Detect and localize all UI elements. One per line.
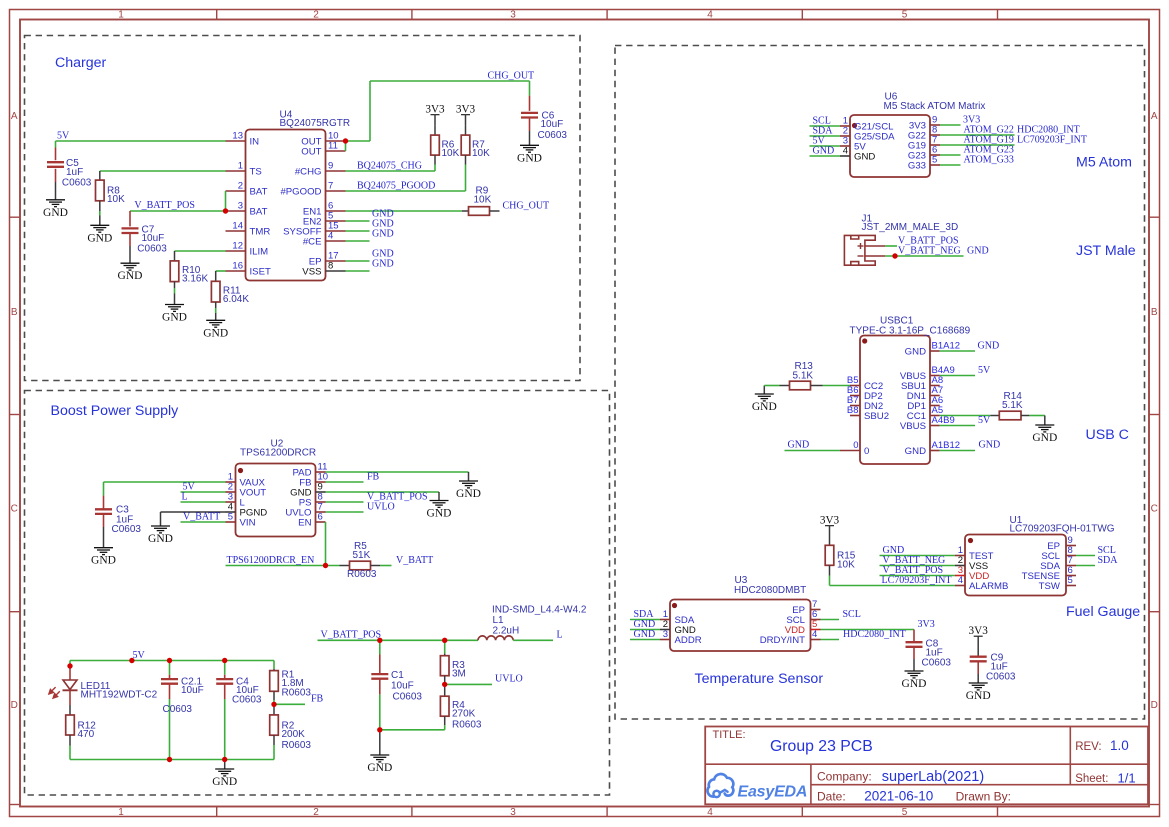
power port 3V3 above R7 — [456, 104, 476, 126]
ground below R10 — [162, 294, 187, 324]
resistor R14 5.1K — [990, 391, 1029, 420]
svg-text:GND: GND — [902, 678, 927, 690]
svg-text:R0603: R0603 — [282, 740, 312, 751]
ground below U2.GND wire — [427, 492, 452, 520]
svg-text:C: C — [1151, 504, 1158, 515]
wire U4.#PGOOD net BQ24075_PGOOD — [346, 190, 466, 192]
svg-text:superLab(2021): superLab(2021) — [882, 769, 984, 785]
wire UVLO stub — [445, 683, 492, 685]
capacitor C5 1uF — [47, 141, 92, 189]
svg-text:A: A — [1151, 111, 1158, 122]
svg-text:ILIM: ILIM — [250, 247, 269, 258]
wire U2.UVLO stub — [326, 511, 364, 513]
svg-text:SCL: SCL — [843, 609, 861, 620]
svg-text:#CE: #CE — [303, 237, 322, 248]
ground below C3 — [91, 527, 116, 567]
svg-text:IND-SMD_L4.4-W4.2: IND-SMD_L4.4-W4.2 — [492, 605, 587, 616]
wire SDA to U3.1 — [630, 619, 660, 621]
svg-text:3: 3 — [510, 10, 516, 21]
wire U6.6 ATOM_G23 — [940, 154, 961, 156]
svg-text:GND: GND — [43, 207, 68, 219]
svg-text:1: 1 — [238, 161, 243, 172]
svg-text:R0603: R0603 — [347, 569, 377, 580]
wire V_BATT_POS to U4.BAT — [130, 210, 226, 212]
svg-text:4: 4 — [328, 231, 333, 242]
wire U6.4 GND — [810, 155, 841, 157]
svg-text:3: 3 — [510, 807, 516, 818]
wire J1.- V_BATT_NEG/GND — [885, 255, 964, 257]
svg-text:C0603: C0603 — [986, 672, 1016, 683]
svg-text:#PGOOD: #PGOOD — [280, 187, 321, 198]
resistor R13 5.1K — [764, 361, 822, 390]
svg-text:GND: GND — [118, 270, 143, 282]
svg-text:12: 12 — [232, 241, 243, 252]
capacitor C6 10uF — [521, 96, 567, 141]
svg-text:LC709203F_INT: LC709203F_INT — [882, 575, 952, 586]
svg-text:1: 1 — [118, 807, 124, 818]
section box Charger — [25, 36, 581, 381]
svg-text:V_BATT_POS: V_BATT_POS — [134, 200, 195, 211]
wire U3.DRDY/INT — [821, 639, 840, 641]
svg-text:Temperature Sensor: Temperature Sensor — [695, 671, 824, 687]
svg-text:GND: GND — [813, 146, 835, 157]
ground below C8 — [902, 659, 927, 690]
svg-text:5: 5 — [228, 512, 233, 523]
wire U4.SYSOFF gnd stub — [346, 230, 370, 232]
svg-text:1/1: 1/1 — [1118, 771, 1136, 786]
svg-text:TPS61200DRCR_EN: TPS61200DRCR_EN — [227, 555, 315, 566]
wire U2.PS stub — [326, 501, 364, 503]
svg-text:3.16K: 3.16K — [182, 274, 208, 285]
ground below C7 — [118, 246, 143, 282]
wire GND to U3.2 — [630, 629, 660, 631]
LED LED11 MHT192WDT-C2 — [49, 666, 158, 705]
wire U4.VSS gnd stub — [346, 270, 370, 272]
resistor R2 200K — [270, 704, 312, 759]
svg-text:5V: 5V — [978, 365, 991, 376]
svg-text:IN: IN — [250, 137, 260, 148]
wire U3.SCL — [821, 619, 840, 621]
svg-text:GND: GND — [967, 246, 989, 257]
svg-text:6.04K: 6.04K — [223, 294, 249, 305]
svg-text:L1: L1 — [493, 615, 505, 626]
title block — [705, 727, 1148, 805]
wire U6.2 SDA — [810, 135, 841, 137]
ground right of R14 — [1032, 416, 1057, 445]
wire U6.8 ATOM_G22 — [940, 134, 1015, 136]
svg-text:GND: GND — [148, 533, 173, 545]
svg-text:5: 5 — [932, 155, 937, 166]
svg-text:5: 5 — [1068, 575, 1073, 586]
svg-text:2.2uH: 2.2uH — [493, 626, 520, 637]
svg-text:GND: GND — [203, 327, 228, 339]
svg-text:VSS: VSS — [302, 267, 321, 278]
svg-text:HDC2080DMBT: HDC2080DMBT — [734, 585, 806, 596]
svg-text:TS: TS — [250, 167, 262, 178]
svg-text:R0603: R0603 — [452, 720, 482, 731]
svg-text:470: 470 — [78, 729, 95, 740]
wire USBC1.B4A9 5V — [940, 375, 975, 377]
wire U4.#CE gnd stub — [346, 240, 370, 242]
EasyEDA logo — [708, 774, 808, 801]
svg-text:A4B9: A4B9 — [932, 415, 955, 426]
svg-text:10uF: 10uF — [142, 233, 165, 244]
svg-text:2: 2 — [238, 181, 243, 192]
svg-text:USB C: USB C — [1086, 427, 1129, 443]
resistor R11 6.04K — [211, 271, 249, 313]
ground below C6 — [517, 131, 542, 164]
wire U4.ILIM to R10 — [175, 250, 226, 252]
svg-text:SDA: SDA — [1098, 555, 1119, 566]
svg-text:4: 4 — [707, 10, 713, 21]
svg-text:7: 7 — [328, 181, 333, 192]
svg-text:GND: GND — [87, 232, 112, 244]
svg-text:10K: 10K — [472, 148, 490, 159]
svg-text:3V3: 3V3 — [918, 619, 935, 630]
svg-text:UVLO: UVLO — [367, 502, 395, 513]
svg-text:Drawn By:: Drawn By: — [956, 790, 1011, 804]
svg-text:2: 2 — [313, 807, 319, 818]
svg-text:10uF: 10uF — [391, 681, 414, 692]
svg-text:ATOM_G33: ATOM_G33 — [964, 155, 1014, 166]
wire PGND to ground — [161, 511, 226, 513]
svg-text:HDC2080_INT: HDC2080_INT — [843, 629, 906, 640]
wire C1-R4 bottom — [380, 729, 445, 731]
svg-text:GND: GND — [854, 152, 875, 163]
svg-text:2: 2 — [313, 10, 319, 21]
svg-text:TPS61200DRCR: TPS61200DRCR — [240, 448, 316, 459]
svg-text:3: 3 — [663, 629, 668, 640]
svg-text:FB: FB — [311, 694, 324, 705]
svg-text:GND: GND — [367, 762, 392, 774]
svg-text:REV:: REV: — [1075, 741, 1101, 753]
wire R14 to ground — [1029, 415, 1044, 417]
wire FB stub — [274, 703, 305, 705]
svg-text:16: 16 — [232, 261, 243, 272]
svg-text:BQ24075_CHG: BQ24075_CHG — [357, 161, 422, 172]
svg-text:GND: GND — [212, 776, 237, 788]
svg-text:Group 23 PCB: Group 23 PCB — [770, 738, 873, 755]
wire U6.7 ATOM_G19 — [940, 144, 1015, 146]
resistor R3 3M — [440, 640, 466, 684]
wire U2.EN down to R5 — [226, 522, 340, 566]
svg-text:TITLE:: TITLE: — [713, 729, 746, 741]
wire V_BATT_POS to U1.VDD — [880, 575, 956, 577]
svg-text:10K: 10K — [474, 195, 492, 206]
svg-text:4: 4 — [707, 807, 713, 818]
svg-text:L: L — [557, 630, 563, 641]
ground below PGND wire — [148, 512, 173, 545]
svg-text:9: 9 — [328, 161, 333, 172]
svg-text:V_BATT_NEG: V_BATT_NEG — [898, 246, 961, 257]
svg-text:GND: GND — [456, 488, 481, 500]
wire V_BATT to U2.VIN — [181, 521, 226, 523]
svg-text:4: 4 — [958, 575, 963, 586]
svg-text:GND: GND — [752, 401, 777, 413]
svg-text:GND: GND — [162, 312, 187, 324]
svg-text:10K: 10K — [442, 148, 460, 159]
svg-text:V_BATT: V_BATT — [183, 512, 220, 523]
IC U4 BQ24075RGTR — [226, 110, 351, 281]
resistor R5 51K — [340, 541, 392, 580]
svg-text:5: 5 — [902, 807, 908, 818]
svg-text:C0603: C0603 — [922, 658, 952, 669]
resistor R9 10K — [462, 186, 500, 216]
svg-text:ADDR: ADDR — [675, 635, 702, 646]
svg-text:4: 4 — [812, 629, 817, 640]
svg-text:0: 0 — [864, 446, 869, 457]
wire 5V to U4.IN — [56, 140, 226, 142]
IC U3 HDC2080DMBT — [660, 575, 821, 651]
wire USBC1.A5 to R14 — [940, 415, 991, 417]
wire U4.EN1 to R9 — [346, 210, 463, 212]
resistor R7 10K — [461, 125, 490, 191]
wire V_BATT_POS rail — [318, 639, 479, 641]
svg-text:Charger: Charger — [55, 55, 107, 71]
ground below PAD wire — [456, 472, 481, 500]
svg-text:VIN: VIN — [240, 518, 256, 529]
wire U4.EN2 gnd stub — [346, 220, 370, 222]
wire USBC1.B1A12 GND — [940, 350, 975, 352]
svg-text:EasyEDA: EasyEDA — [738, 784, 808, 801]
svg-text:UVLO: UVLO — [495, 674, 523, 685]
wire 5V to U2.VOUT — [181, 491, 226, 493]
svg-text:1: 1 — [118, 10, 124, 21]
wire 5V rail — [70, 661, 274, 669]
wire USBC1.A1B12 GND — [940, 450, 975, 452]
ground below LED rail — [212, 760, 237, 789]
svg-text:VBUS: VBUS — [900, 421, 926, 432]
svg-text:GND: GND — [634, 629, 656, 640]
svg-text:8: 8 — [328, 261, 333, 272]
svg-text:270K: 270K — [452, 709, 476, 720]
svg-text:C1: C1 — [391, 670, 404, 681]
svg-text:BAT: BAT — [250, 187, 268, 198]
svg-text:D: D — [1151, 700, 1158, 711]
svg-text:A1B12: A1B12 — [932, 440, 961, 451]
svg-text:10uF: 10uF — [181, 685, 204, 696]
svg-text:GND: GND — [517, 152, 542, 164]
resistor R15 10K — [825, 545, 856, 585]
svg-text:C0603: C0603 — [393, 692, 423, 703]
wire U2.FB stub — [326, 481, 364, 483]
ground below R8 — [87, 216, 112, 245]
wire U2.PAD to ground — [326, 471, 469, 473]
svg-text:BAT: BAT — [250, 207, 268, 218]
svg-text:2021-06-10: 2021-06-10 — [864, 789, 933, 804]
IC U6 M5 Stack ATOM Matrix — [840, 92, 985, 178]
svg-text:Company:: Company: — [817, 770, 872, 784]
wire R13 to USBC1.B5 — [823, 385, 851, 387]
svg-text:A: A — [11, 111, 18, 122]
svg-text:GND: GND — [372, 229, 394, 240]
svg-text:GND: GND — [978, 341, 1000, 352]
ground below R11 — [203, 313, 228, 339]
svg-text:10K: 10K — [107, 194, 125, 205]
svg-text:M5 Stack ATOM Matrix: M5 Stack ATOM Matrix — [884, 101, 986, 112]
svg-text:G33: G33 — [908, 161, 926, 172]
connector J1 JST_2MM_MALE_3D — [844, 214, 958, 266]
svg-text:B: B — [11, 307, 18, 318]
svg-text:B: B — [1151, 307, 1158, 318]
wire GND to U1.TEST — [880, 555, 956, 557]
svg-text:V_BATT_POS: V_BATT_POS — [883, 565, 944, 576]
wire U6.5 ATOM_G33 — [940, 164, 961, 166]
capacitor C8 1uF — [906, 630, 952, 669]
svg-text:V_BATT: V_BATT — [396, 555, 433, 566]
svg-text:1.0: 1.0 — [1110, 738, 1129, 753]
svg-text:C0603: C0603 — [112, 524, 142, 535]
capacitor C4 10uF — [216, 661, 262, 760]
svg-text:GND: GND — [1032, 432, 1057, 444]
svg-text:TYPE-C 3.1-16P_C168689: TYPE-C 3.1-16P_C168689 — [850, 326, 971, 337]
svg-text:3V3: 3V3 — [969, 625, 989, 637]
ground below C9 — [966, 683, 991, 702]
svg-text:Date:: Date: — [817, 790, 846, 804]
svg-text:GND: GND — [979, 440, 1001, 451]
svg-text:4: 4 — [843, 146, 848, 157]
wire U4.EP gnd stub — [346, 260, 370, 262]
svg-text:CHG_OUT: CHG_OUT — [503, 201, 550, 212]
svg-text:C0603: C0603 — [62, 178, 92, 189]
wire U1.SDA — [1076, 565, 1095, 567]
svg-text:JST_2MM_MALE_3D: JST_2MM_MALE_3D — [862, 222, 959, 233]
svg-text:200K: 200K — [282, 729, 306, 740]
svg-text:CHG_OUT: CHG_OUT — [488, 71, 535, 82]
wire U4.ISET to R11 — [216, 270, 226, 272]
IC USBC1 TYPE-C 3.1-16P_C168689 — [840, 316, 971, 465]
wire GND to USBC1.0 — [785, 450, 841, 452]
wire U4.OUT to CHG_OUT and C6 — [346, 81, 530, 151]
svg-text:C0603: C0603 — [538, 130, 568, 141]
wire U1.SCL — [1076, 555, 1095, 557]
svg-text:C0603: C0603 — [232, 695, 262, 706]
capacitor C9 1uF — [970, 653, 1016, 683]
svg-text:GND: GND — [427, 508, 452, 520]
resistor R8 10K — [96, 171, 126, 216]
svg-text:11: 11 — [328, 141, 338, 152]
ground below C5 — [43, 182, 68, 219]
svg-text:Sheet:: Sheet: — [1075, 773, 1108, 785]
svg-text:5.1K: 5.1K — [1002, 400, 1023, 411]
svg-text:3V3: 3V3 — [820, 515, 840, 527]
wire U4.#CHG net BQ24075_CHG — [346, 170, 436, 172]
svg-text:SBU2: SBU2 — [864, 411, 889, 422]
svg-text:1uF: 1uF — [66, 167, 83, 178]
svg-text:GND: GND — [966, 690, 991, 702]
wire LED bottom rail — [70, 759, 274, 761]
wire U3.VDD to 3V3/C8 — [821, 629, 915, 631]
svg-text:Boost Power Supply: Boost Power Supply — [51, 403, 180, 419]
svg-text:3: 3 — [238, 201, 243, 212]
resistor R1 1.8M — [270, 669, 312, 704]
resistor R10 3.16K — [170, 251, 208, 294]
ground below C1 — [367, 730, 392, 774]
svg-text:D: D — [11, 700, 18, 711]
svg-text:GND: GND — [372, 259, 394, 270]
svg-text:3V3: 3V3 — [425, 104, 445, 116]
wire U4.BAT2 branch — [225, 191, 227, 211]
svg-text:JST Male: JST Male — [1076, 243, 1136, 259]
svg-text:10uF: 10uF — [541, 119, 564, 130]
wire U2.GND to ground — [326, 491, 440, 493]
power port 3V3 above R6 — [425, 104, 445, 126]
svg-text:R0603: R0603 — [282, 688, 312, 699]
svg-text:MHT192WDT-C2: MHT192WDT-C2 — [81, 690, 158, 701]
wire R15 to U1.ALARMB — [830, 585, 956, 587]
wire L1 to L label — [513, 639, 553, 641]
svg-text:M5 Atom: M5 Atom — [1076, 155, 1132, 171]
IC U2 TPS61200DRCR — [226, 439, 329, 537]
svg-text:OUT: OUT — [301, 147, 321, 158]
wire GND to U3.3 — [630, 639, 660, 641]
svg-text:3V3: 3V3 — [456, 104, 476, 116]
resistor R4 270K — [440, 684, 482, 730]
wire L to U2.L — [181, 501, 226, 503]
svg-text:TSW: TSW — [1039, 581, 1061, 592]
svg-text:EN: EN — [298, 518, 311, 529]
wire U6.3 5V — [810, 145, 841, 147]
wire V_BATT_NEG to U1.VSS — [880, 565, 956, 567]
svg-text:3M: 3M — [452, 668, 466, 679]
svg-text:Fuel Gauge: Fuel Gauge — [1066, 604, 1140, 620]
svg-text:5.1K: 5.1K — [793, 370, 814, 381]
svg-text:FB: FB — [367, 472, 380, 483]
svg-text:C: C — [11, 504, 18, 515]
svg-text:BQ24075RGTR: BQ24075RGTR — [280, 118, 351, 129]
svg-text:L: L — [182, 492, 188, 503]
svg-text:0: 0 — [853, 440, 858, 451]
svg-text:BQ24075_PGOOD: BQ24075_PGOOD — [357, 181, 435, 192]
svg-text:C0603: C0603 — [163, 704, 193, 715]
wire U4.TS to R8 — [100, 170, 226, 172]
power port 3V3 above R15 — [820, 515, 840, 546]
svg-text:DRDY/INT: DRDY/INT — [760, 635, 805, 646]
svg-text:ISET: ISET — [250, 267, 271, 278]
svg-text:TMR: TMR — [250, 227, 271, 238]
capacitor C7 10uF — [122, 211, 168, 255]
resistor R12 470 — [66, 705, 97, 760]
svg-text:GND: GND — [788, 440, 810, 451]
section box right (M5/JST/USB/FuelGauge/TempSensor) — [615, 46, 1145, 720]
svg-text:LC709203FQH-01TWG: LC709203FQH-01TWG — [1010, 524, 1115, 535]
svg-text:GND: GND — [905, 347, 926, 358]
ground left of R13 — [752, 386, 777, 414]
svg-text:LC709203F_INT: LC709203F_INT — [1017, 135, 1087, 146]
svg-text:51K: 51K — [353, 550, 371, 561]
svg-text:6: 6 — [318, 512, 323, 523]
wire U6.1 SCL — [810, 125, 841, 127]
svg-text:C0603: C0603 — [137, 244, 167, 255]
svg-text:5V: 5V — [978, 415, 991, 426]
resistor R6 10K — [431, 125, 460, 171]
wire U2.VAUX to C3 — [104, 482, 226, 496]
svg-text:V_BATT_POS: V_BATT_POS — [321, 630, 382, 641]
svg-text:5V: 5V — [133, 650, 146, 661]
svg-text:13: 13 — [232, 131, 243, 142]
svg-text:10K: 10K — [837, 560, 855, 571]
section box Boost Power Supply — [25, 391, 610, 796]
svg-text:5: 5 — [902, 10, 908, 21]
wire J1.+ V_BATT_POS — [885, 245, 897, 247]
capacitor C2.1 10uF — [161, 661, 204, 760]
capacitor C3 1uF — [95, 496, 141, 535]
power port 3V3 above C9 — [969, 625, 989, 657]
IC U1 LC709203FQH-01TWG — [955, 515, 1115, 596]
wire U6.9 3V3 — [940, 124, 961, 126]
svg-text:GND: GND — [91, 555, 116, 567]
svg-text:ALARMB: ALARMB — [969, 581, 1008, 592]
